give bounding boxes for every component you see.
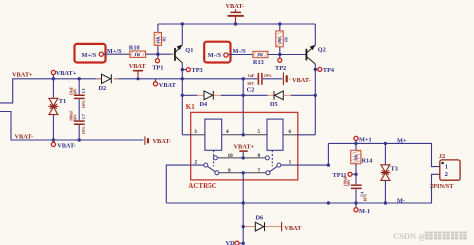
svg-text:1K: 1K [257,52,263,57]
svg-text:C2: C2 [247,87,255,94]
capacitor C1 [68,79,86,108]
svg-text:VBAT: VBAT [129,63,147,70]
node T1 bottom [52,138,55,141]
svg-text:K1: K1 [186,103,195,111]
svg-text:6: 6 [289,129,292,135]
port M+1 [354,136,372,145]
node Q1 column on rail [181,77,184,80]
port M-/S [224,53,228,57]
contact circle 9 [215,171,219,175]
svg-text:2: 2 [445,171,448,178]
svg-text:M+1: M+1 [359,136,372,143]
pin 5 [258,129,261,135]
TVS T1 [48,98,66,115]
relay coil 1 [205,119,222,150]
node R13/R6/TP2 junction [278,53,281,56]
node top rail junctions [181,22,282,25]
svg-text:R5: R5 [162,37,167,42]
resistor R5 [154,32,166,45]
testpoint TP1 [152,54,163,71]
wire R6 column [279,24,281,55]
wire pin1 riser [327,143,329,165]
diode D5 [268,91,292,108]
svg-text:7: 7 [258,168,261,174]
svg-text:8: 8 [258,153,261,159]
wire R13 to Q2 base [268,54,306,56]
pin 2 [195,159,198,165]
contact circle 7 [266,171,270,175]
node caps bottom [78,138,81,141]
svg-text:50V: 50V [247,81,254,86]
TVS T3 [380,143,397,203]
svg-text:5: 5 [258,129,261,135]
diode D4 [197,91,221,108]
wire flyback diode row [182,94,315,96]
svg-text:1: 1 [445,164,448,171]
diode D2 [96,74,119,92]
node diode row center [242,94,245,97]
wire VBAT- rail [0,112,144,141]
svg-text:C7: C7 [81,114,86,119]
contact circle 8 [265,156,269,160]
testpoint TP4 [314,67,335,74]
svg-text:50V: 50V [72,88,77,95]
wire Q1 emitter column [181,63,183,135]
net label VBAT- left [15,134,34,141]
svg-text:3: 3 [194,129,197,135]
transistor Q1 [171,45,193,63]
node D6 junction [242,225,245,228]
node C2 rail junction [242,77,245,80]
svg-text:1: 1 [289,160,292,166]
svg-text:10K: 10K [353,153,358,161]
svg-text:9: 9 [228,168,231,174]
node R10/R5/TP1 junction [156,53,159,56]
svg-text:M+: M+ [397,137,407,144]
wire M+/S to R10 [103,53,129,55]
svg-text:M-/S: M-/S [208,52,222,59]
resistor R6 [276,31,289,47]
svg-text:4: 4 [226,129,229,135]
resistor R10 [129,45,146,58]
pin 3 [194,129,197,135]
node contact lower center [242,171,245,174]
testpoint TP11 [333,172,358,179]
wire Q2 collector [314,24,316,45]
node T3 top [384,142,387,145]
svg-text:VBAT: VBAT [284,225,302,232]
svg-text:2: 2 [195,159,198,165]
svg-text:VBAT+: VBAT+ [12,72,33,79]
svg-text:50V: 50V [72,114,77,121]
node C4 bottom [354,201,357,204]
port M+/S [99,52,103,56]
wire VBAT+ rail left [0,79,101,103]
svg-text:TP2: TP2 [275,65,286,72]
svg-text:D6: D6 [256,214,264,221]
svg-text:M+/S: M+/S [82,52,97,59]
svg-text:10K: 10K [277,36,282,44]
svg-text:M-: M- [397,197,405,204]
wire VBAT+ rail right of D2 [114,78,243,80]
svg-text:VBAT+: VBAT+ [56,70,77,77]
svg-text:T3: T3 [391,166,398,173]
svg-text:1uF: 1uF [248,73,255,78]
contact circle 10 [213,156,217,160]
svg-text:10%: 10% [363,194,368,202]
svg-text:2PIN/ST: 2PIN/ST [430,183,454,190]
port VBAT- [51,140,75,149]
node M- x328 [327,201,330,204]
svg-text:D2: D2 [99,85,107,92]
node diode row right [314,94,317,97]
node pin1 corner [327,163,330,166]
wire R5 column [157,24,159,54]
svg-text:10: 10 [228,153,234,159]
watermark [393,231,467,241]
svg-text:M+/S: M+/S [107,48,122,55]
svg-text:M-1: M-1 [359,208,370,215]
svg-text:VBAT: VBAT [159,82,177,89]
power port VBAT- mid battery [145,136,171,145]
pin 8 [258,153,261,159]
svg-text:R14: R14 [362,157,374,164]
node contact row center [242,156,245,159]
capacitor C7 [68,99,86,140]
power port VBAT right of D6 [282,222,303,232]
mechanical link dashed right [271,150,273,166]
capacitor C2 [243,73,282,94]
svg-text:R10: R10 [129,45,140,52]
wire M+ net [328,143,439,166]
wire T1 column [52,79,54,140]
label box M+/S [75,44,106,63]
svg-text:D4: D4 [200,101,209,108]
svg-text:Q2: Q2 [318,46,326,53]
wire center column to bottom [242,173,244,244]
svg-text:50V: 50V [346,179,351,186]
testpoint TP2 [275,55,286,73]
node coil row center [242,133,245,136]
svg-text:10%: 10% [81,100,86,108]
pin 1 [289,160,292,166]
svg-text:1K: 1K [134,52,140,57]
net label M+ [397,137,407,144]
svg-text:VBAT-: VBAT- [57,142,76,149]
svg-text:CSDN @: CSDN @ [393,231,426,241]
mechanical link dashed left [213,150,215,166]
pin 10 [228,153,234,159]
svg-text:10%: 10% [264,73,272,78]
svg-text:T1: T1 [59,98,66,105]
net label M-/S [233,48,247,55]
power port VBAT- top [226,3,245,24]
wire contact row upper [217,157,265,159]
svg-text:10%: 10% [81,126,86,134]
net label M+/S [107,48,122,55]
port M-1 [354,203,370,215]
wire top rail [158,23,315,25]
switch arm left [204,163,216,172]
svg-text:Q1: Q1 [185,47,193,54]
wire R10 to Q1 base [146,53,175,55]
port VD bottom [226,240,245,245]
power port VBAT+ relay [234,144,255,158]
node M- center column [242,201,245,204]
power port VBAT above rail [129,63,147,80]
svg-text:R13: R13 [253,59,264,66]
wire Q1 collector [181,24,183,45]
net label M- [397,197,405,204]
svg-text:C1: C1 [81,88,86,93]
wire center column C2 to coil [242,79,244,135]
svg-text:ACTR5C: ACTR5C [188,182,216,190]
svg-text:M-/S: M-/S [233,48,247,55]
port VBAT below rail [153,79,176,89]
pin 6 [289,129,292,135]
wire contact row lower [219,172,266,174]
power port VBAT- right battery [283,72,310,85]
svg-text:TP3: TP3 [192,67,203,74]
svg-text:J2: J2 [439,153,445,160]
label box M-/S [204,42,230,63]
resistor R13 [253,51,268,66]
wire M- net [166,174,440,203]
wire pin 2 [166,165,204,203]
wire M-/S to R13 [228,54,253,56]
wire pin 1 [281,164,329,166]
transistor Q2 [306,45,325,64]
svg-text:TP4: TP4 [323,67,335,74]
svg-text:10K: 10K [155,36,160,44]
net label VBAT+ left [12,72,33,79]
diode D6 [245,214,281,231]
svg-text:D5: D5 [270,101,278,108]
pin 7 [258,168,261,174]
node T3 bottom [384,201,387,204]
node caps column on rail [78,77,81,80]
switch arm right [269,163,281,172]
resistor R14 [351,143,373,184]
svg-text:VBAT-: VBAT- [226,3,245,10]
svg-text:VBAT-: VBAT- [153,138,172,145]
svg-text:VBAT-: VBAT- [292,77,311,84]
svg-text:VBAT+: VBAT+ [234,144,255,151]
svg-text:TP1: TP1 [152,64,163,71]
wire Q2 emitter column [314,64,316,135]
capacitor C4 [343,175,368,203]
svg-text:R6: R6 [283,37,288,42]
relay K1 box [186,103,298,190]
wire coil row [182,134,315,136]
pin 9 [228,168,231,174]
connector J2 [430,153,460,190]
relay coil 2 [267,119,283,150]
pin 4 [226,129,229,135]
port VBAT+ [51,70,76,81]
svg-text:VD: VD [226,240,236,245]
testpoint TP3 [181,67,203,74]
node diode row left [181,94,184,97]
